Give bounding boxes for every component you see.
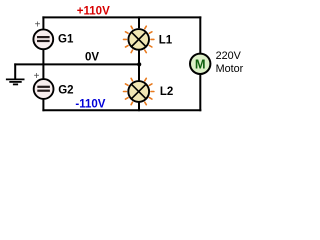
wire: lamp branch bottom lead bbox=[138, 102, 140, 111]
ground bbox=[6, 79, 25, 84]
motor M1 bbox=[190, 54, 210, 74]
svg-text:+: + bbox=[35, 19, 41, 30]
wire: lamp branch top lead bbox=[138, 16, 140, 28]
svg-text:G2: G2 bbox=[58, 85, 73, 97]
svg-text:220V: 220V bbox=[216, 50, 242, 62]
wire: G1 positive lead riser bbox=[42, 16, 44, 30]
svg-text:L1: L1 bbox=[159, 35, 173, 47]
wire: motor bottom lead bbox=[199, 74, 201, 112]
svg-text:L2: L2 bbox=[160, 86, 173, 98]
wire: top rail bbox=[42, 16, 201, 18]
svg-text:Motor: Motor bbox=[216, 63, 244, 75]
wire: G1 to G2 segment bbox=[42, 49, 44, 79]
generator G1 bbox=[33, 29, 53, 49]
wire: G2 to bottom rail bbox=[42, 99, 44, 111]
svg-text:+110V: +110V bbox=[77, 6, 110, 18]
svg-text:M: M bbox=[195, 56, 206, 71]
junction dot: 0V rail to lamp branch bbox=[137, 62, 141, 66]
lamp L1 bbox=[124, 26, 154, 52]
wire: bottom rail bbox=[42, 109, 201, 111]
svg-text:-110V: -110V bbox=[75, 99, 105, 111]
svg-text:+: + bbox=[34, 71, 40, 82]
svg-text:0V: 0V bbox=[85, 51, 99, 63]
wire: ground stem bbox=[14, 63, 16, 78]
label 220V Motor bbox=[216, 50, 244, 75]
lamp L2 bbox=[124, 78, 154, 104]
svg-text:G1: G1 bbox=[58, 34, 74, 46]
wire: 0V rail bbox=[14, 63, 139, 65]
generator G2 bbox=[34, 79, 54, 99]
wire: motor top lead bbox=[199, 16, 201, 54]
wire: lamp branch middle lead bbox=[138, 50, 140, 81]
